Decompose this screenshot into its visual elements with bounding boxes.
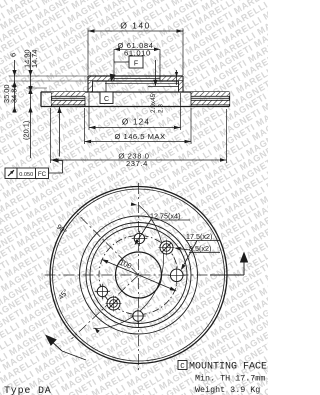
- friction ring: [41, 91, 230, 93]
- svg-text:2.3: 2.3: [158, 104, 165, 113]
- svg-text:Ø 124: Ø 124: [122, 117, 150, 126]
- svg-text:FC: FC: [38, 171, 47, 178]
- svg-text:237.4: 237.4: [126, 159, 148, 168]
- svg-text:Type DA: Type DA: [4, 386, 52, 395]
- center bore: [116, 252, 162, 298]
- svg-text:Ø 140: Ø 140: [120, 21, 150, 31]
- svg-text:Min. TH 17.7mm: Min. TH 17.7mm: [195, 374, 265, 384]
- datum F box: [129, 56, 143, 68]
- bolt hole bottom: [133, 311, 143, 321]
- diagonal radial 135deg: [77, 213, 139, 275]
- hole 17.5 right: [170, 269, 183, 282]
- svg-text:0.050: 0.050: [19, 172, 33, 178]
- leader 17.5(x2): [182, 241, 198, 270]
- dim dia 124: [88, 93, 90, 130]
- svg-text:C: C: [104, 96, 109, 103]
- dia 100 bolt-circle dim: [102, 259, 177, 291]
- svg-text:12.75(x4): 12.75(x4): [150, 212, 180, 221]
- centerlines: [45, 274, 237, 276]
- leader 8.5(x2): [176, 248, 191, 250]
- datum C box: [100, 92, 113, 104]
- runout feature control frame: [5, 168, 49, 179]
- svg-text:6: 6: [9, 53, 18, 57]
- rotation arrow lower left: [62, 351, 86, 360]
- bolt hole left: [97, 286, 107, 296]
- pad inner circle: [80, 216, 198, 334]
- dim dia 238.0/237.4: [50, 108, 52, 163]
- brake disc section: mounting flange hatched: [88, 76, 114, 81]
- svg-text:F: F: [134, 60, 138, 67]
- outer diameter circle: [50, 187, 227, 364]
- svg-text:8.5(x2): 8.5(x2): [189, 244, 211, 253]
- left dims: 6 / 35.00 34.84: [9, 75, 88, 77]
- svg-text:(20.1): (20.1): [22, 121, 31, 140]
- svg-text:C: C: [180, 363, 185, 371]
- hat walls: [88, 81, 93, 92]
- bolt circle (dashed): [99, 236, 178, 315]
- diagonal radial 225deg: [72, 275, 139, 339]
- rim circle: [53, 189, 225, 361]
- svg-text:2.9x45°: 2.9x45°: [149, 91, 157, 113]
- pin hole 8.5 lower left (crossed): [107, 297, 120, 310]
- dim dia 140: [87, 29, 89, 76]
- pin hole 8.5 upper right (crossed): [160, 241, 173, 254]
- dim dia 61.084/61.010: [114, 48, 160, 50]
- svg-text:Weight 3.9 Kg: Weight 3.9 Kg: [195, 385, 260, 395]
- dim dia 146.5 MAX: [84, 108, 86, 144]
- aux vertical line x=59.5: [59, 107, 61, 157]
- svg-text:17.5(x2): 17.5(x2): [186, 232, 212, 241]
- hat interior far-side lines: [105, 82, 179, 84]
- svg-text:MOUNTING FACE: MOUNTING FACE: [189, 362, 267, 373]
- dims 14.90/14.74 and (20.1): [30, 52, 32, 158]
- svg-text:34.84: 34.84: [10, 85, 19, 104]
- hat circle: [90, 227, 187, 324]
- chamfer dims 2.9x45 / 2.3: [154, 60, 156, 86]
- leader 12.75(x4): [136, 220, 152, 244]
- bolt hole top 12.75: [134, 233, 144, 243]
- svg-text:14.74: 14.74: [30, 50, 39, 69]
- angular dim arc 90deg/45deg: [94, 205, 164, 329]
- C MOUNTING FACE: [178, 361, 187, 370]
- rotation arrow right: [210, 274, 244, 276]
- svg-text:Ø 146.5 MAX: Ø 146.5 MAX: [114, 132, 165, 141]
